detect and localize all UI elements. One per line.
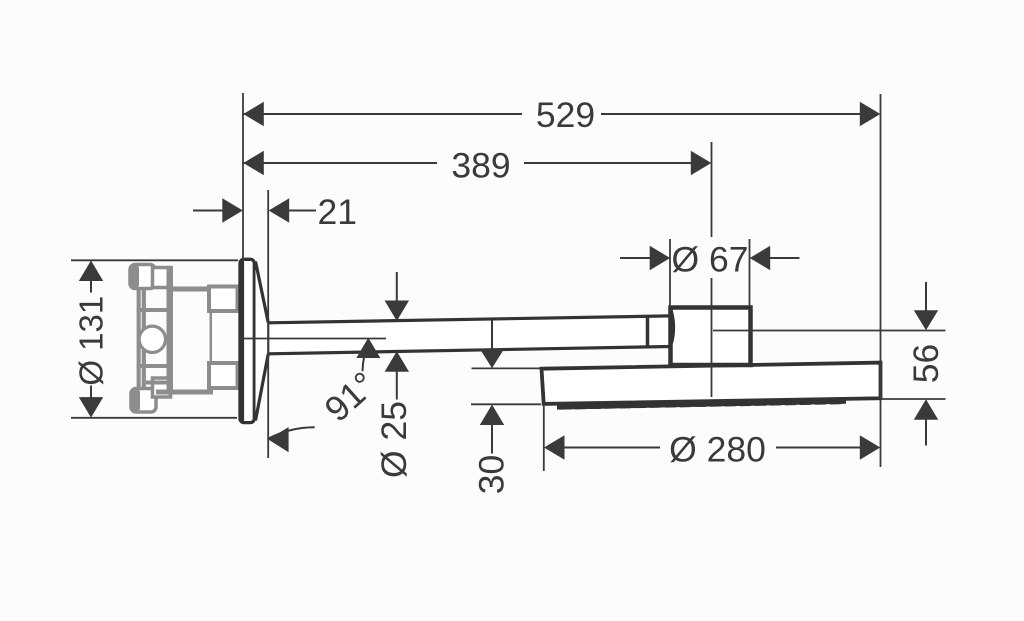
svg-text:Ø 131: Ø 131 [73, 296, 110, 386]
svg-text:56: 56 [906, 344, 946, 384]
svg-text:30: 30 [472, 455, 512, 495]
svg-text:529: 529 [536, 95, 595, 135]
svg-text:Ø 280: Ø 280 [669, 430, 766, 470]
svg-text:389: 389 [451, 146, 510, 186]
svg-text:21: 21 [318, 192, 358, 232]
svg-text:Ø 25: Ø 25 [374, 401, 414, 478]
svg-text:Ø 67: Ø 67 [672, 240, 749, 280]
